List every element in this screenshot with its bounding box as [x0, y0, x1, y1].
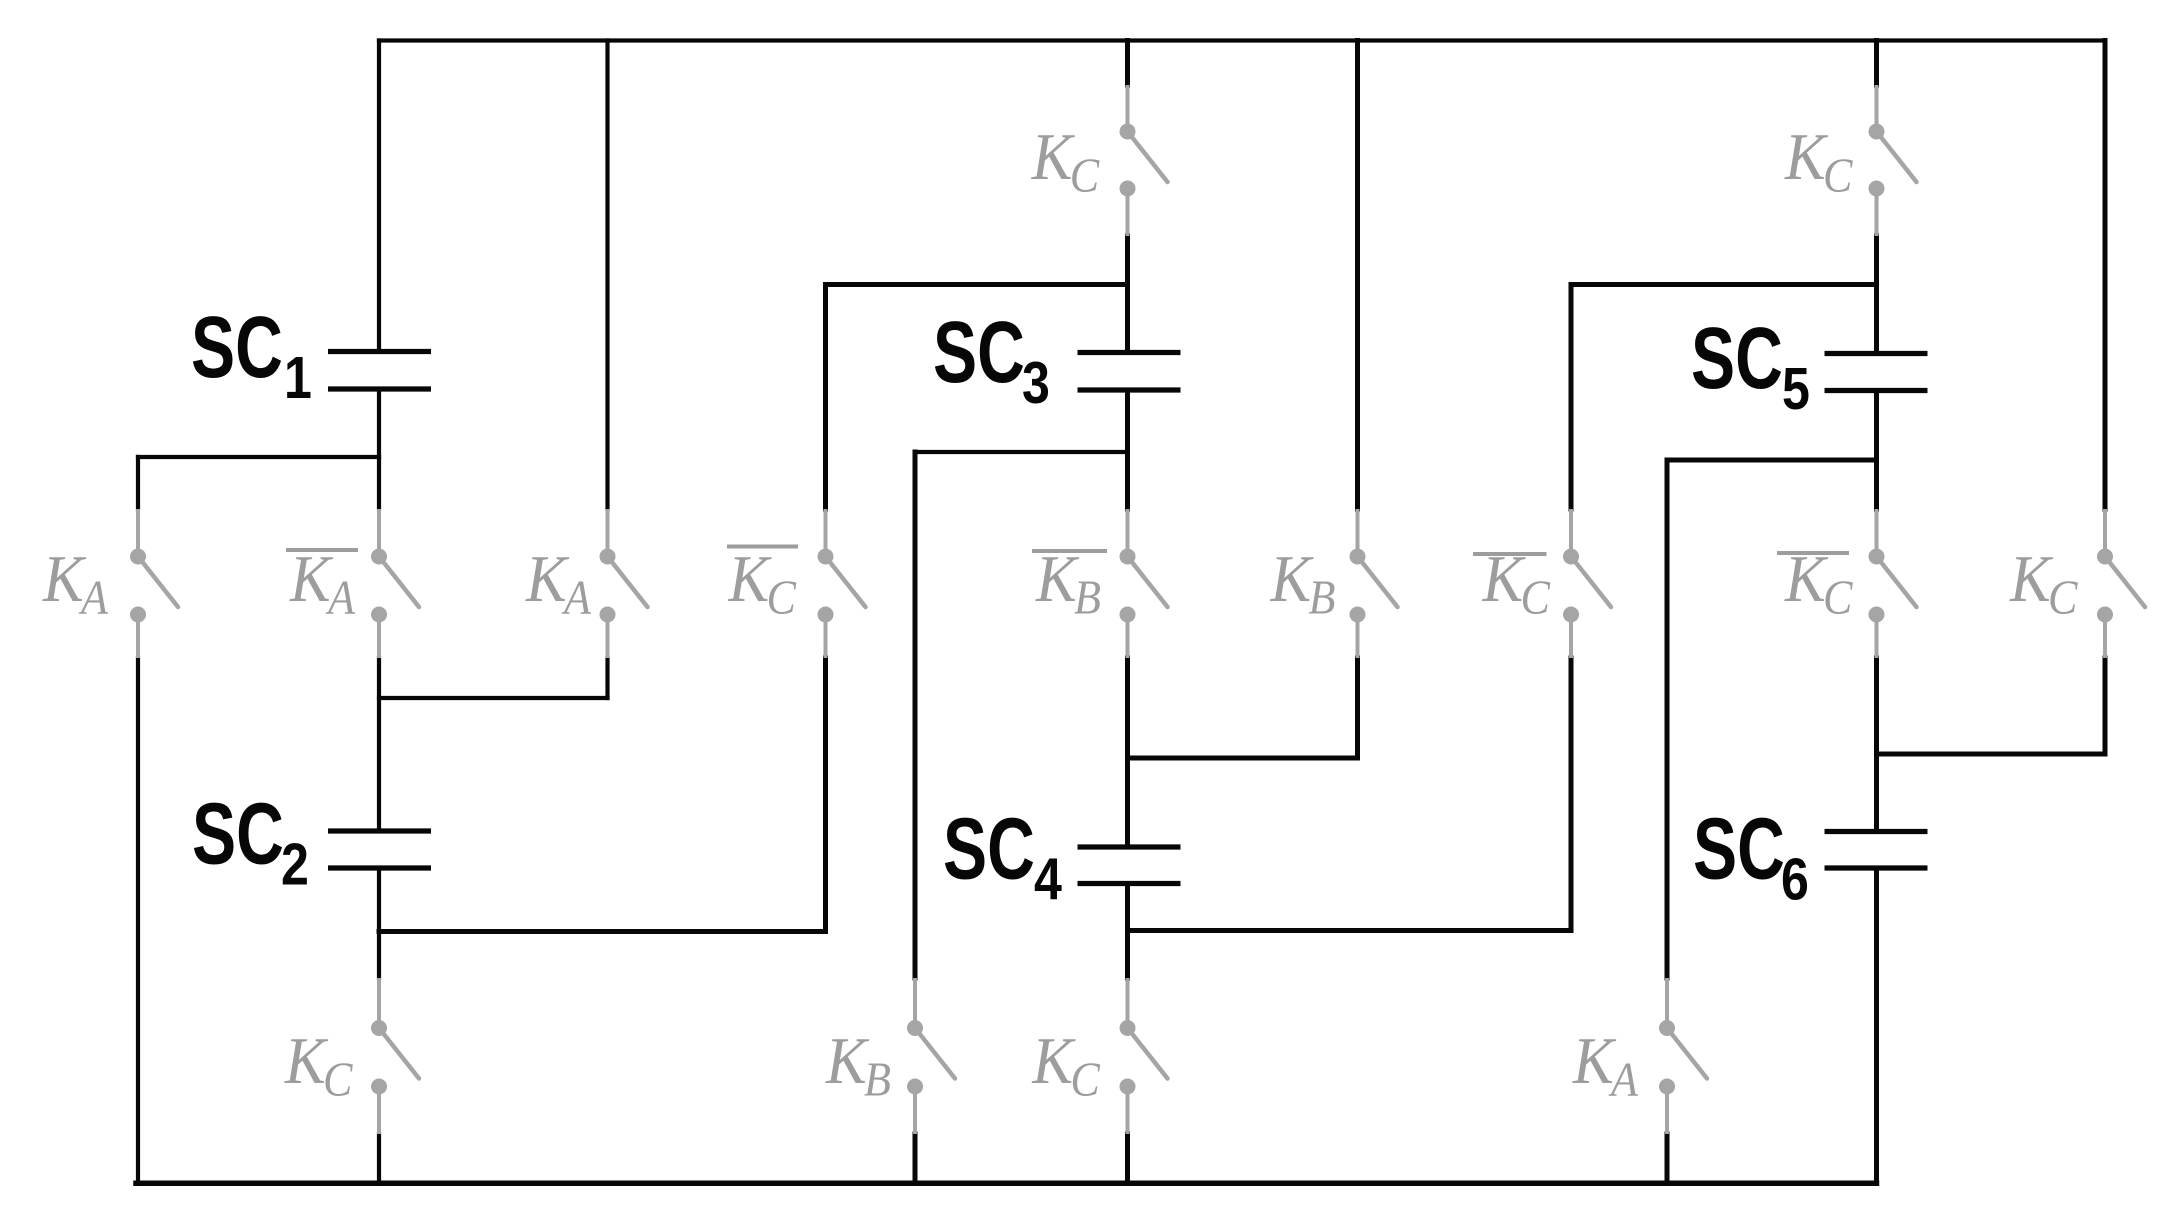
svg-text:C: C	[2048, 570, 2078, 625]
svg-text:K: K	[42, 541, 87, 615]
svg-text:SC: SC	[1691, 310, 1783, 407]
svg-text:K: K	[1035, 541, 1080, 615]
svg-text:SC: SC	[191, 299, 283, 396]
svg-text:2: 2	[281, 831, 309, 898]
svg-text:A: A	[325, 570, 355, 625]
svg-text:C: C	[1521, 570, 1551, 625]
svg-text:K: K	[284, 1023, 329, 1097]
svg-text:A: A	[561, 570, 591, 625]
svg-text:K: K	[1031, 1023, 1076, 1097]
svg-text:B: B	[1074, 570, 1101, 625]
svg-text:C: C	[1070, 1052, 1100, 1107]
svg-text:B: B	[864, 1052, 891, 1107]
svg-text:SC: SC	[933, 304, 1025, 401]
svg-text:1: 1	[284, 344, 312, 411]
svg-text:C: C	[323, 1052, 353, 1107]
svg-text:4: 4	[1034, 846, 1062, 913]
svg-text:K: K	[1270, 541, 1315, 615]
svg-text:C: C	[1823, 148, 1853, 203]
svg-text:K: K	[525, 541, 570, 615]
svg-text:K: K	[825, 1023, 870, 1097]
svg-text:K: K	[1784, 541, 1829, 615]
svg-text:C: C	[1070, 148, 1100, 203]
svg-text:B: B	[1309, 570, 1336, 625]
svg-text:SC: SC	[1693, 801, 1785, 898]
svg-text:SC: SC	[192, 786, 284, 883]
svg-text:K: K	[1572, 1023, 1617, 1097]
svg-text:K: K	[289, 541, 334, 615]
svg-text:C: C	[1823, 570, 1853, 625]
svg-text:A: A	[1608, 1052, 1638, 1107]
svg-text:C: C	[767, 570, 797, 625]
svg-text:K: K	[1482, 541, 1527, 615]
svg-text:6: 6	[1781, 846, 1809, 913]
svg-text:A: A	[78, 570, 108, 625]
svg-text:3: 3	[1022, 349, 1050, 416]
svg-text:K: K	[2009, 541, 2054, 615]
svg-text:K: K	[1031, 119, 1076, 193]
svg-text:K: K	[728, 541, 773, 615]
svg-text:SC: SC	[943, 801, 1035, 898]
svg-text:5: 5	[1782, 355, 1810, 422]
svg-text:K: K	[1784, 119, 1829, 193]
